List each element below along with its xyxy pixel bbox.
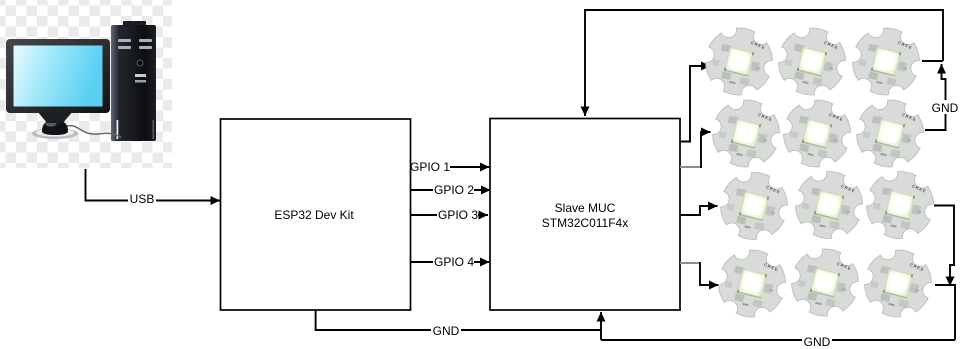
- monitor stand base dish: [32, 128, 78, 139]
- monitor bezel: [6, 39, 110, 113]
- LED star D11: [786, 243, 864, 322]
- svg-text:USB: USB: [130, 192, 155, 206]
- ESP32 Dev Kit box: [221, 119, 411, 310]
- slave right stub to LED row 1: [680, 66, 711, 142]
- svg-text:STM32C011F4x: STM32C011F4x: [542, 216, 628, 230]
- svg-text:GND: GND: [433, 324, 460, 338]
- slave right stub to LED row 3: [680, 206, 718, 215]
- tower slots: [135, 74, 146, 77]
- vertical with arrow into slave bottom: [600, 312, 602, 340]
- LED star D4: [707, 94, 785, 173]
- row4 return wire to bottom rail: [935, 285, 955, 340]
- LED star D3: [847, 22, 925, 101]
- LED star D9: [861, 165, 939, 244]
- LED star D7: [715, 166, 793, 245]
- tower case: [111, 25, 156, 141]
- slave right stub to LED row 2: [680, 132, 711, 168]
- tower bottom highlights: [117, 120, 119, 139]
- monitor cable: [64, 126, 121, 137]
- row2 return wire with up arrow into row1 junction, GND label: [925, 64, 961, 130]
- LED star D8: [790, 165, 868, 244]
- LED star D1: [700, 22, 778, 101]
- USB wire computer -> ESP32: [86, 169, 221, 206]
- tower button: [137, 60, 143, 66]
- tower top tab: [123, 21, 146, 27]
- row1 return wire to GND vertical: [922, 60, 943, 62]
- GPIO 4 wire: [411, 255, 490, 269]
- LED star D12: [859, 244, 937, 323]
- slave right stub to LED row 4: [680, 262, 719, 285]
- svg-text:GND: GND: [804, 335, 831, 349]
- tower vents: [118, 39, 131, 42]
- checkerboard background of computer clipart: [0, 0, 172, 168]
- monitor stand dome: [42, 120, 68, 135]
- LED star D10: [713, 244, 791, 323]
- monitor neck: [37, 111, 73, 123]
- GPIO 1 wire: [410, 160, 490, 174]
- svg-text:GPIO 2: GPIO 2: [434, 183, 474, 197]
- row3 return wire with down arrow into row4 wire: [934, 206, 954, 287]
- computer clipart: [6, 21, 156, 141]
- svg-text:ESP32 Dev Kit: ESP32 Dev Kit: [274, 208, 354, 222]
- slave top GND return: top rail from right vertical into slave top: [585, 10, 943, 116]
- ESP32 GND wire to slave bottom junction: [316, 310, 601, 338]
- bottom GND rail: [601, 334, 955, 349]
- svg-text:GPIO 4: GPIO 4: [434, 255, 474, 269]
- Slave MUC box: [490, 119, 680, 311]
- GPIO 3 wire: [411, 208, 489, 222]
- LED star D5: [778, 94, 856, 173]
- LED star D6: [851, 94, 929, 173]
- svg-text:GND: GND: [932, 101, 959, 115]
- LED star D2: [773, 22, 851, 101]
- GPIO 2 wire: [411, 183, 491, 197]
- svg-text:GPIO 1: GPIO 1: [410, 160, 450, 174]
- svg-text:Slave MUC: Slave MUC: [555, 201, 616, 215]
- svg-text:GPIO 3: GPIO 3: [438, 208, 478, 222]
- monitor screen: [14, 46, 103, 107]
